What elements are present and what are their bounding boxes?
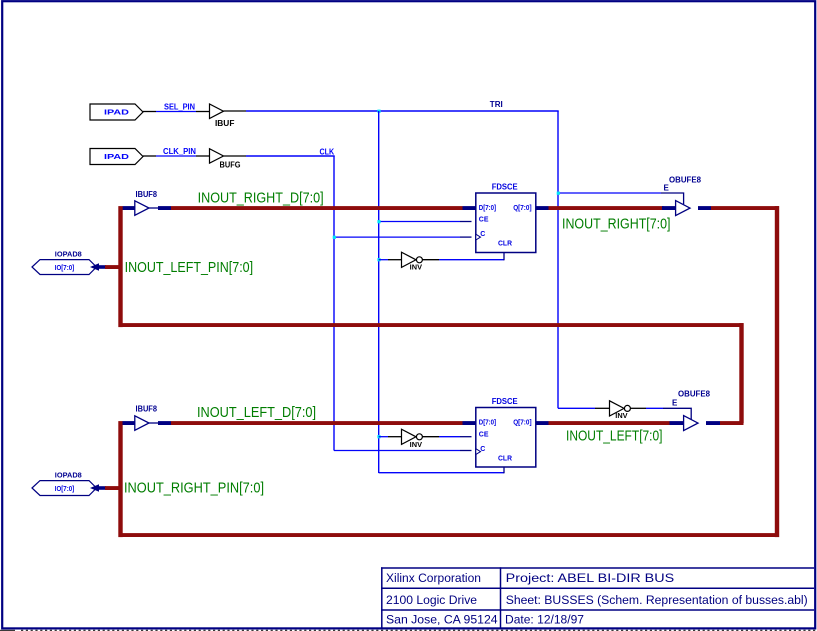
svg-text:FDSCE: FDSCE bbox=[492, 182, 519, 191]
wire BUFG output stub bbox=[224, 155, 247, 157]
svg-text:IBUF: IBUF bbox=[215, 119, 235, 128]
svg-text:IPAD: IPAD bbox=[104, 110, 129, 117]
wire FDSCE2 C net bbox=[334, 450, 460, 452]
buffer IBUF8 (top) bbox=[135, 190, 158, 216]
svg-text:IBUF8: IBUF8 bbox=[136, 190, 158, 199]
svg-text:CLR: CLR bbox=[498, 456, 512, 463]
bus mid horizontal feedback bbox=[119, 323, 744, 327]
svg-text:INOUT_RIGHT_D[7:0]: INOUT_RIGHT_D[7:0] bbox=[198, 189, 324, 206]
wire IPAD1 pin stub bbox=[143, 111, 156, 113]
junction TRI split bbox=[377, 110, 380, 113]
wire E2 stub bbox=[663, 408, 691, 419]
wire net CLK horizontal bbox=[246, 155, 335, 157]
buffer OBUFE8 (top) bbox=[669, 176, 702, 216]
wire IBUF8 bottom out thin bbox=[149, 422, 159, 424]
svg-text:INOUT_LEFT_D[7:0]: INOUT_LEFT_D[7:0] bbox=[197, 404, 316, 421]
title block bbox=[381, 567, 814, 628]
wire net SEL_PIN bbox=[156, 111, 196, 113]
svg-text:C: C bbox=[480, 446, 485, 453]
bus IBUF8 bottom input bbox=[123, 421, 135, 425]
svg-text:IPAD: IPAD bbox=[104, 154, 129, 161]
wire IBUF output stub bbox=[224, 110, 247, 112]
bus FDSCE1 D stub bbox=[463, 206, 477, 210]
buffer IBUF bbox=[210, 104, 235, 128]
svg-text:INV: INV bbox=[410, 265, 423, 272]
wire INV2 to CE2 bbox=[439, 436, 460, 438]
svg-text:San Jose, CA 95124: San Jose, CA 95124 bbox=[386, 613, 498, 627]
svg-text:INV: INV bbox=[615, 413, 628, 420]
wire IPAD2 pin stub bbox=[143, 155, 156, 157]
bus IBUF8 bottom out stub bbox=[158, 421, 171, 425]
wire IBUF input stub bbox=[196, 111, 209, 113]
svg-text:INOUT_LEFT[7:0]: INOUT_LEFT[7:0] bbox=[566, 427, 663, 444]
bus IOPAD8 left connect bbox=[105, 265, 119, 269]
wire INV3 output stub bbox=[630, 407, 646, 409]
svg-text:BUFG: BUFG bbox=[220, 160, 241, 169]
bus IBUF8 top out stub bbox=[158, 206, 171, 210]
bus left top vertical bbox=[118, 206, 122, 327]
wire INV1 input stub bbox=[388, 259, 402, 261]
bus inner right vertical bbox=[739, 323, 743, 423]
junction C1 tap bbox=[333, 236, 336, 239]
junction E1 tap bbox=[557, 192, 560, 195]
pad P4 IOPAD8 (bottom left) bbox=[32, 473, 106, 496]
inverter INV1 bbox=[402, 252, 423, 271]
bus IBUF8 top input bbox=[123, 206, 135, 210]
bus OBUFE8 top output stub bbox=[698, 206, 711, 210]
wire IBUF8 top out thin bbox=[149, 207, 159, 209]
wire INV1 input net bbox=[379, 259, 388, 261]
wire TRI to CLR2 bbox=[379, 472, 504, 474]
buffer OBUFE8 (bottom) bbox=[678, 389, 711, 430]
svg-text:INV: INV bbox=[410, 442, 423, 449]
svg-text:CE: CE bbox=[479, 217, 489, 224]
wire FDSCE1 C stub bbox=[460, 236, 472, 238]
bus INOUT_RIGHT bbox=[549, 206, 664, 210]
wire INV2 input net bbox=[379, 436, 388, 438]
svg-text:Xilinx Corporation: Xilinx Corporation bbox=[386, 571, 481, 585]
svg-text:E: E bbox=[672, 399, 678, 408]
bus FDSCE2 D stub bbox=[463, 421, 477, 425]
svg-text:IO[7:0]: IO[7:0] bbox=[55, 486, 74, 493]
bus OBUFE8 bottom input stub bbox=[670, 421, 684, 425]
wire FDSCE1 CE net bbox=[379, 221, 460, 223]
pad P2 IPAD (CLK) bbox=[90, 149, 143, 165]
junction INV1 tap bbox=[377, 258, 380, 261]
wire INV2 input stub bbox=[388, 436, 402, 438]
wire TRI vertical A bbox=[378, 111, 380, 473]
wire BUFG input stub bbox=[196, 155, 209, 157]
wire TRI vertical B bbox=[557, 111, 559, 408]
wire INV1 output stub bbox=[422, 259, 439, 261]
svg-text:2100 Logic Drive: 2100 Logic Drive bbox=[386, 593, 477, 607]
pad P3 IOPAD8 (left) bbox=[32, 252, 106, 275]
wire CLR1 stub bbox=[503, 253, 505, 261]
bus top-right to loop bbox=[711, 206, 779, 210]
svg-text:D[7:0]: D[7:0] bbox=[479, 205, 496, 212]
wire INV3 input net bbox=[558, 407, 595, 409]
bus to inner loop bbox=[720, 421, 744, 425]
svg-text:IO[7:0]: IO[7:0] bbox=[55, 265, 74, 272]
wire E2 net bbox=[646, 407, 663, 409]
bus left bottom vertical bbox=[118, 421, 122, 537]
wire CE2 stub bbox=[460, 436, 472, 438]
bus FDSCE2 Q stub bbox=[536, 421, 549, 425]
inverter INV2 bbox=[402, 429, 423, 449]
inverter INV3 bbox=[610, 401, 631, 420]
buffer BUFG bbox=[210, 149, 241, 170]
bus INOUT_LEFT bbox=[549, 421, 670, 425]
svg-text:Project: ABEL BI-DIR BUS: Project: ABEL BI-DIR BUS bbox=[506, 571, 675, 585]
wire INV3 input stub bbox=[595, 407, 610, 409]
svg-text:CLK_PIN: CLK_PIN bbox=[163, 147, 196, 156]
wire CLK vertical bbox=[333, 156, 335, 451]
wire INV2 output stub bbox=[422, 436, 439, 438]
svg-text:OBUFE8: OBUFE8 bbox=[678, 389, 711, 398]
wire FDSCE1 C net bbox=[334, 236, 460, 238]
svg-text:Q[7:0]: Q[7:0] bbox=[513, 205, 531, 212]
svg-text:E: E bbox=[664, 183, 670, 192]
bus INOUT_RIGHT_D bbox=[171, 206, 463, 210]
svg-text:IOPAD8: IOPAD8 bbox=[55, 473, 82, 480]
buffer IBUF8 (bottom) bbox=[135, 405, 158, 431]
bus FDSCE1 Q stub bbox=[536, 206, 549, 210]
svg-text:CLR: CLR bbox=[498, 241, 512, 248]
bus IOPAD8 bottom connect bbox=[105, 486, 119, 490]
flip-flop U1 FDSCE (top) bbox=[476, 182, 536, 252]
junction CE1 tap bbox=[377, 220, 380, 223]
bus bottom outer horizontal bbox=[119, 533, 780, 537]
svg-text:Sheet: BUSSES (Schem. Represen: Sheet: BUSSES (Schem. Representation of … bbox=[506, 593, 808, 607]
svg-text:TRI: TRI bbox=[490, 100, 503, 109]
wire FDSCE1 CE stub bbox=[460, 221, 472, 223]
bus INOUT_LEFT_D bbox=[171, 421, 463, 425]
svg-text:IBUF8: IBUF8 bbox=[136, 405, 158, 414]
svg-text:FDSCE: FDSCE bbox=[492, 397, 519, 406]
bus right outer vertical bbox=[775, 206, 779, 537]
wire E1 net bbox=[558, 192, 661, 194]
svg-text:INOUT_RIGHT_PIN[7:0]: INOUT_RIGHT_PIN[7:0] bbox=[124, 480, 264, 497]
svg-text:INOUT_LEFT_PIN[7:0]: INOUT_LEFT_PIN[7:0] bbox=[125, 259, 254, 276]
svg-text:INOUT_RIGHT[7:0]: INOUT_RIGHT[7:0] bbox=[562, 215, 671, 232]
wire net CLK_PIN bbox=[156, 155, 196, 157]
svg-text:Date: 12/18/97: Date: 12/18/97 bbox=[505, 613, 584, 627]
svg-text:CLK: CLK bbox=[320, 147, 335, 156]
svg-text:SEL_PIN: SEL_PIN bbox=[164, 102, 195, 111]
wire net TRI horizontal bbox=[246, 110, 559, 112]
svg-text:Q[7:0]: Q[7:0] bbox=[513, 420, 531, 427]
wire E1 stub bbox=[661, 193, 684, 204]
bus OBUFE8 top input stub bbox=[662, 206, 676, 210]
svg-text:IOPAD8: IOPAD8 bbox=[55, 252, 82, 259]
wire FDSCE2 C stub bbox=[460, 450, 472, 452]
junction INV2 tap bbox=[377, 435, 380, 438]
pad P1 IPAD (SEL) bbox=[90, 104, 143, 120]
svg-text:D[7:0]: D[7:0] bbox=[479, 420, 496, 427]
wire CLR2 stub bbox=[503, 467, 505, 473]
svg-text:CE: CE bbox=[479, 431, 489, 438]
wire INV1 to CLR1 bbox=[439, 259, 504, 261]
flip-flop U2 FDSCE (bottom) bbox=[476, 397, 536, 467]
svg-text:OBUFE8: OBUFE8 bbox=[669, 176, 702, 185]
bus OBUFE8 bottom output stub bbox=[706, 421, 720, 425]
